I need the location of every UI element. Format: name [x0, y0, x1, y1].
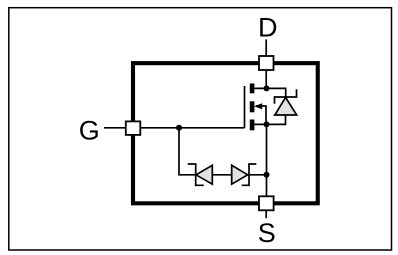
svg-text:S: S [258, 218, 276, 248]
svg-text:D: D [258, 12, 278, 42]
svg-text:G: G [79, 116, 100, 146]
